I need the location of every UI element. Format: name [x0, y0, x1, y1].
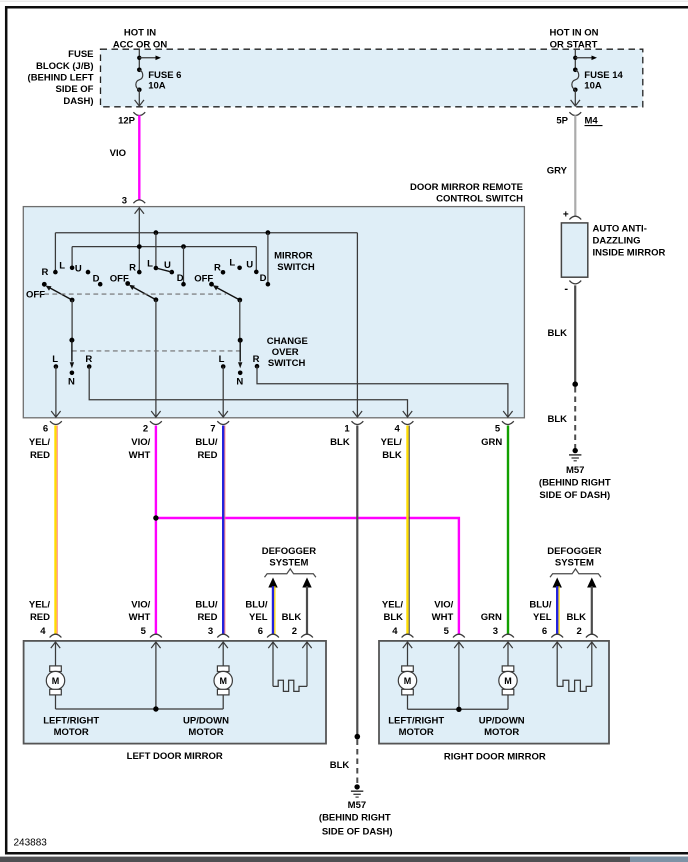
ground M57 bottom	[354, 784, 359, 789]
label YEL/RED upper	[29, 437, 50, 461]
contact L3	[237, 266, 242, 271]
svg-text:GRY: GRY	[547, 165, 568, 176]
svg-text:DEFOGGER: DEFOGGER	[547, 546, 602, 557]
svg-text:2: 2	[577, 626, 582, 637]
changeover link dashed	[72, 350, 240, 352]
svg-text:2: 2	[143, 424, 148, 435]
connector left mirror pin 5 cup	[150, 634, 162, 637]
svg-text:L: L	[147, 259, 153, 270]
connector 5P cup	[569, 112, 581, 115]
wire up/down motor to bus right	[507, 695, 509, 709]
contact D3	[266, 282, 271, 287]
arrow defogger BLU/YEL right	[553, 578, 562, 588]
svg-text:R: R	[253, 354, 260, 365]
svg-text:12P: 12P	[118, 115, 136, 126]
connector right mirror pin 2 cup	[586, 634, 598, 637]
svg-text:D: D	[260, 273, 267, 284]
changeover lever right	[239, 340, 241, 361]
right door mirror box	[379, 641, 609, 744]
svg-text:SWITCH: SWITCH	[277, 262, 315, 273]
svg-text:R: R	[85, 354, 92, 365]
label VIO/WHT upper	[129, 437, 151, 461]
svg-text:CONTROL SWITCH: CONTROL SWITCH	[436, 194, 523, 205]
wire contact-L-right to pin 7	[222, 367, 224, 418]
motor M left/right (right mirror)	[402, 666, 414, 672]
svg-text:OFF: OFF	[194, 273, 213, 284]
connector pin 2 cup	[150, 421, 162, 424]
switch lever SW2	[125, 281, 130, 286]
wire up/down motor to bus	[222, 695, 224, 709]
connector pin 7 cup	[217, 421, 229, 424]
svg-text:BLK: BLK	[566, 612, 586, 623]
wire fuse14 to connector 5P	[574, 90, 576, 106]
svg-text:MOTOR: MOTOR	[54, 727, 89, 738]
svg-text:LEFT/RIGHT: LEFT/RIGHT	[43, 716, 99, 727]
motor M left/right (left mirror)	[50, 666, 62, 672]
connector right mirror pin 5 cup	[453, 634, 465, 637]
motor M up/down (right mirror)	[502, 666, 514, 672]
label VIO/WHT lower-left	[129, 600, 151, 623]
switch lever SW3	[209, 282, 214, 287]
svg-text:3: 3	[208, 626, 213, 637]
bridge L2-U2	[156, 268, 172, 272]
connector cup inside mirror top	[569, 216, 581, 219]
svg-text:M4: M4	[585, 115, 599, 126]
svg-text:YEL: YEL	[533, 612, 552, 623]
svg-text:YEL/: YEL/	[382, 600, 403, 611]
svg-text:WHT: WHT	[432, 612, 454, 623]
svg-text:YEL/: YEL/	[381, 437, 402, 448]
top hairline	[0, 0, 688, 2]
wire fuse14 branch arrow right	[575, 57, 592, 59]
svg-text:UP/DOWN: UP/DOWN	[183, 716, 229, 727]
node VIO/WHT split junction	[153, 515, 158, 520]
wire pin3 riser to R2	[138, 208, 140, 273]
connector left mirror pin 6 cup	[267, 634, 279, 637]
svg-text:M57: M57	[348, 800, 366, 811]
defogger element right mirror	[556, 642, 558, 686]
wire lever3 to changeover pivot right	[239, 300, 241, 340]
svg-text:ACC OR ON: ACC OR ON	[113, 40, 168, 51]
defogger element left mirror	[272, 642, 274, 686]
changeover pivot right	[238, 338, 243, 343]
wire left/right motor to bus	[55, 695, 57, 709]
changeover lever left	[71, 340, 73, 361]
svg-text:WHT: WHT	[129, 450, 151, 461]
arrow left mirror pin 2	[302, 642, 311, 648]
left door mirror box	[24, 641, 326, 744]
arrow pin 2 at box bottom	[151, 411, 160, 417]
connector pin 1 cup	[352, 421, 364, 424]
svg-text:BLU/: BLU/	[195, 437, 218, 448]
wire rail1 to contact D3	[267, 233, 269, 285]
svg-text:OVER: OVER	[272, 347, 299, 358]
svg-text:HOT IN ON: HOT IN ON	[549, 28, 598, 39]
svg-text:M: M	[52, 676, 60, 686]
svg-text:6: 6	[542, 626, 547, 637]
wire pin5 to bus right	[458, 642, 460, 709]
svg-text:4: 4	[395, 424, 401, 435]
svg-text:LEFT DOOR MIRROR: LEFT DOOR MIRROR	[127, 751, 223, 762]
svg-text:OFF: OFF	[26, 289, 45, 300]
svg-text:GRN: GRN	[481, 612, 502, 623]
contact D1	[98, 282, 103, 287]
wire pin4 to left/right motor right	[407, 642, 409, 666]
wire contact-R-right to pin 5	[257, 366, 508, 417]
svg-text:2: 2	[292, 626, 297, 637]
arrow defogger BLK left	[302, 578, 311, 588]
node rail2-pin3 junction	[137, 244, 142, 249]
svg-text:SYSTEM: SYSTEM	[555, 557, 594, 568]
svg-text:-: -	[564, 283, 568, 295]
wire pin5 to bus	[155, 642, 157, 709]
wire rail1 right descender to pin 1	[356, 233, 358, 418]
svg-text:6: 6	[258, 626, 263, 637]
arrow right mirror pin 4	[403, 642, 412, 648]
svg-text:L: L	[229, 258, 235, 269]
arrow pin 1 at box bottom	[353, 411, 362, 417]
arrow left mirror pin 6	[268, 642, 277, 648]
svg-text:10A: 10A	[584, 81, 602, 92]
svg-text:(BEHIND RIGHT: (BEHIND RIGHT	[539, 478, 611, 489]
node fuse14 feed junction	[573, 56, 577, 60]
arrow right mirror pin 5	[454, 642, 463, 648]
wire BLK dashed to ground M57 right	[574, 387, 576, 448]
wire pin3 to up/down motor right	[507, 642, 509, 666]
svg-text:SIDE OF: SIDE OF	[55, 84, 93, 95]
svg-text:BLK: BLK	[282, 612, 302, 623]
auto anti-dazzling inside mirror box	[561, 223, 587, 277]
svg-text:AUTO ANTI-: AUTO ANTI-	[593, 224, 647, 235]
svg-text:5: 5	[141, 626, 147, 637]
node rail2-D2 junction	[181, 244, 186, 249]
node BLK to ground junction	[355, 734, 361, 740]
contact U1	[86, 270, 91, 275]
wire fuse6 feed vertical	[138, 49, 140, 70]
arrow left mirror pin 3	[219, 642, 228, 648]
connector cup inside mirror bottom	[569, 281, 581, 284]
svg-text:U: U	[246, 260, 253, 271]
rail1 horizontal	[55, 232, 357, 234]
svg-text:M57: M57	[566, 465, 584, 476]
svg-text:D: D	[93, 274, 100, 285]
svg-text:LEFT/RIGHT: LEFT/RIGHT	[388, 715, 444, 726]
svg-text:6: 6	[43, 424, 48, 435]
mirror switch mechanical link dashed	[36, 293, 226, 295]
wire BLK right mirror pin2	[591, 586, 593, 634]
svg-text:YEL: YEL	[249, 612, 268, 623]
label BLU/YEL right	[529, 600, 552, 623]
svg-text:VIO: VIO	[110, 148, 126, 159]
contact R left-group	[87, 364, 92, 369]
contact L2	[154, 266, 159, 271]
arrow right mirror pin 3	[503, 642, 512, 648]
arrow left mirror pin 5	[151, 642, 160, 648]
svg-text:U: U	[164, 260, 171, 271]
svg-text:4: 4	[392, 626, 398, 637]
svg-text:OR START: OR START	[550, 40, 598, 51]
contact L left-group	[54, 364, 59, 369]
node BLK right junction	[572, 381, 578, 387]
connector pin 6 cup	[50, 421, 62, 424]
connector pin 5 cup	[502, 421, 514, 424]
svg-text:10A: 10A	[148, 81, 166, 92]
svg-text:1: 1	[344, 424, 350, 435]
contact R1	[53, 270, 58, 275]
wire BLK from inside mirror	[574, 285, 576, 384]
svg-text:DOOR MIRROR REMOTE: DOOR MIRROR REMOTE	[410, 182, 523, 193]
switch box	[23, 207, 524, 418]
wire VIO/WHT switch pin2 to left mirror pin5	[155, 426, 157, 635]
svg-text:5: 5	[444, 626, 450, 637]
brace defogger left	[265, 569, 316, 577]
svg-text:BLK: BLK	[547, 328, 567, 339]
wire lever1 to changeover pivot left	[71, 300, 73, 340]
wire rail2 left to contact L1	[71, 247, 73, 268]
node fuse6 feed junction	[137, 56, 141, 60]
wire pin3 to up/down motor	[222, 642, 224, 666]
connector pin 3 cup	[133, 200, 145, 203]
svg-text:VIO/: VIO/	[131, 600, 150, 611]
changeover pivot left	[69, 338, 74, 343]
rail2 horizontal	[72, 246, 256, 248]
svg-text:M: M	[504, 676, 512, 686]
contact R3	[221, 270, 226, 275]
wire rail2 to contact D2	[183, 247, 185, 285]
arrow pin 3 into box	[135, 208, 144, 214]
arrow pin 4 at box bottom	[403, 411, 412, 417]
svg-text:FUSE 14: FUSE 14	[584, 70, 623, 81]
wire BLU/RED switch pin7 to left mirror pin3	[222, 426, 224, 635]
svg-text:RED: RED	[197, 612, 217, 623]
connector right mirror pin 4 cup	[402, 634, 414, 637]
contact R right-group	[255, 364, 260, 369]
arrow right mirror pin 2	[587, 642, 596, 648]
arrow fuse14 at box edge	[571, 100, 580, 106]
contact U2	[170, 270, 175, 275]
node rail1-L2 junction	[154, 230, 159, 235]
svg-text:RED: RED	[30, 612, 50, 623]
arrow pin 5 at box bottom	[503, 411, 512, 417]
label YEL/RED lower	[29, 600, 50, 623]
connector right mirror pin 3 cup	[502, 634, 514, 637]
connector left mirror pin 2 cup	[301, 634, 313, 637]
svg-text:U: U	[75, 263, 82, 274]
bottom scrollbar track	[0, 857, 688, 862]
label BLU/RED lower	[195, 600, 218, 623]
connector left mirror pin 4 cup	[50, 634, 62, 637]
svg-text:4: 4	[40, 626, 46, 637]
svg-text:R: R	[129, 262, 136, 273]
wire BLU/YEL left mirror pin6	[272, 586, 274, 634]
svg-text:DASH): DASH)	[63, 96, 93, 107]
svg-text:MOTOR: MOTOR	[484, 727, 519, 738]
contact R2	[137, 270, 142, 275]
wire BLK switch pin1 down	[356, 426, 358, 737]
label VIO/WHT lower-right	[432, 600, 454, 623]
svg-text:WHT: WHT	[129, 612, 151, 623]
svg-text:RED: RED	[30, 450, 50, 461]
svg-text:MOTOR: MOTOR	[399, 727, 434, 738]
svg-text:SIDE OF DASH): SIDE OF DASH)	[539, 490, 610, 501]
svg-text:243883: 243883	[14, 838, 48, 849]
node left bus junction	[153, 706, 158, 711]
connector 12P cup	[133, 112, 145, 115]
svg-text:VIO/: VIO/	[131, 437, 150, 448]
left mirror bus	[56, 708, 224, 710]
fuse F14 symbol	[573, 68, 578, 73]
wire VIO from 12P to switch pin 3	[138, 115, 140, 200]
wire fuse6 to connector 12P	[138, 90, 140, 106]
svg-text:5: 5	[495, 424, 501, 435]
contact L right-group	[221, 364, 226, 369]
svg-text:D: D	[177, 273, 184, 284]
svg-text:R: R	[214, 262, 221, 273]
connector pin 4 cup	[402, 421, 414, 424]
contact N right-group	[238, 371, 243, 376]
label YEL/BLK upper	[381, 437, 402, 461]
svg-text:CHANGE: CHANGE	[267, 336, 308, 347]
wire GRN switch pin5 to right mirror pin3	[507, 426, 509, 635]
svg-text:SYSTEM: SYSTEM	[269, 557, 308, 568]
right mirror bus	[408, 708, 509, 710]
switch lever SW1	[42, 282, 47, 287]
wire contact-R-left to pin 4	[89, 367, 407, 418]
wire BLK left mirror pin2	[306, 586, 308, 634]
svg-text:GRN: GRN	[481, 437, 502, 448]
brace defogger right	[550, 569, 601, 577]
svg-text:M: M	[404, 676, 412, 686]
wire YEL/RED switch pin6 to left mirror pin4	[54, 426, 56, 635]
svg-text:BLU/: BLU/	[195, 600, 218, 611]
node right bus junction	[456, 707, 461, 712]
svg-text:BLU/: BLU/	[245, 600, 268, 611]
wire fuse14 feed vertical	[574, 49, 576, 70]
svg-text:MIRROR: MIRROR	[274, 250, 313, 261]
svg-text:MOTOR: MOTOR	[188, 727, 223, 738]
wire rail1 left to contact R1	[54, 233, 56, 272]
arrow defogger BLU/YEL left	[268, 578, 277, 588]
svg-text:RED: RED	[197, 450, 217, 461]
wire rail1 to contact L2	[155, 233, 157, 268]
fuse block J/B dashed box	[101, 49, 643, 107]
wire VIO/WHT branch to right mirror pin5	[156, 518, 459, 634]
svg-text:BLK: BLK	[330, 437, 350, 448]
arrow defogger BLK right	[587, 578, 596, 588]
arrow left mirror pin 4	[51, 642, 60, 648]
svg-text:BLK: BLK	[382, 450, 402, 461]
svg-text:BLK: BLK	[383, 612, 403, 623]
svg-text:YEL/: YEL/	[29, 600, 50, 611]
connector right mirror pin 6 cup	[551, 634, 563, 637]
svg-text:FUSE: FUSE	[68, 49, 93, 60]
wire contact-L-left to pin 6	[55, 367, 57, 418]
svg-text:DEFOGGER: DEFOGGER	[262, 546, 317, 557]
svg-text:RIGHT DOOR MIRROR: RIGHT DOOR MIRROR	[444, 752, 546, 763]
svg-text:N: N	[236, 377, 243, 388]
label BLU/YEL left	[245, 600, 268, 623]
label YEL/BLK lower	[382, 600, 403, 623]
svg-text:N: N	[68, 377, 75, 388]
svg-text:L: L	[219, 354, 225, 365]
svg-text:R: R	[41, 267, 48, 278]
arrow right mirror pin 6	[553, 642, 562, 648]
svg-text:BLK: BLK	[547, 414, 567, 425]
svg-text:L: L	[52, 354, 58, 365]
arrow pin 7 at box bottom	[219, 411, 228, 417]
svg-text:HOT IN: HOT IN	[124, 28, 156, 39]
wire YEL/BLK switch pin4 to right mirror pin4	[406, 426, 408, 635]
svg-text:M: M	[219, 676, 227, 686]
svg-text:5P: 5P	[556, 115, 568, 126]
svg-text:3: 3	[122, 195, 127, 206]
svg-text:+: +	[563, 209, 569, 220]
svg-text:SIDE OF DASH): SIDE OF DASH)	[322, 826, 393, 837]
svg-text:OFF: OFF	[110, 273, 129, 284]
svg-text:VIO/: VIO/	[434, 600, 453, 611]
ground M57 right	[573, 448, 578, 453]
svg-text:BLK: BLK	[330, 760, 350, 771]
arrow pin 6 at box bottom	[51, 411, 60, 417]
wire lever2 to pin 2	[155, 300, 157, 417]
wire left/right motor to bus right	[407, 695, 409, 709]
connector left mirror pin 3 cup	[217, 634, 229, 637]
arrow fuse6 at box edge	[135, 100, 144, 106]
svg-text:BLU/: BLU/	[529, 600, 552, 611]
fuse F6 symbol	[137, 68, 142, 73]
svg-text:UP/DOWN: UP/DOWN	[479, 715, 525, 726]
svg-text:L: L	[59, 261, 65, 272]
wire pin4 to left/right motor	[55, 642, 57, 666]
svg-text:DAZZLING: DAZZLING	[593, 235, 641, 246]
contact L1	[70, 266, 75, 271]
svg-text:YEL/: YEL/	[29, 437, 50, 448]
label FUSE BLOCK (J/B) (BEHIND LEFT SIDE OF DASH)	[28, 49, 94, 107]
svg-text:BLOCK (J/B): BLOCK (J/B)	[36, 61, 94, 72]
motor M up/down (left mirror)	[217, 666, 229, 672]
wire rail2 right to contact U3	[255, 247, 257, 272]
contact D2	[181, 282, 186, 287]
bottom scrollbar right segment	[630, 857, 688, 862]
contact U3	[254, 270, 259, 275]
wire BLU/YEL right mirror pin6	[556, 586, 558, 634]
svg-text:SWITCH: SWITCH	[268, 358, 306, 369]
svg-text:7: 7	[210, 424, 215, 435]
label BLU/RED upper	[195, 437, 218, 461]
svg-text:(BEHIND LEFT: (BEHIND LEFT	[28, 73, 94, 84]
svg-text:INSIDE MIRROR: INSIDE MIRROR	[593, 247, 666, 258]
svg-text:FUSE 6: FUSE 6	[148, 70, 181, 81]
svg-text:3: 3	[493, 626, 498, 637]
node rail1-D3 junction	[266, 230, 271, 235]
wire GRY from 5P to inside mirror	[574, 115, 576, 216]
svg-text:(BEHIND RIGHT: (BEHIND RIGHT	[319, 813, 391, 824]
wire BLK dashed to ground M57	[356, 740, 358, 785]
wire fuse6 branch arrow right	[139, 57, 156, 59]
contact N left-group	[70, 371, 75, 376]
